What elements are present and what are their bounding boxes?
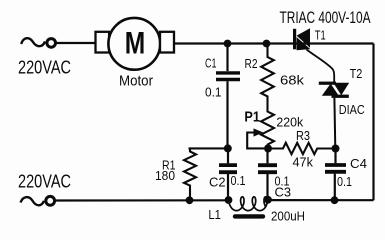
wire right rail	[372, 44, 374, 201]
svg-text:220VAC: 220VAC	[18, 57, 71, 78]
AC source bottom terminal	[46, 196, 55, 205]
wire top rail	[174, 42, 374, 44]
node C4 bottom	[331, 196, 339, 204]
svg-text:Motor: Motor	[119, 73, 153, 89]
svg-text:0.1: 0.1	[231, 174, 246, 188]
triac T1	[293, 28, 310, 50]
svg-text:0.1: 0.1	[205, 85, 222, 99]
wire R3 link + resistor R3	[268, 143, 336, 154]
motor right brush block	[160, 32, 174, 53]
resistor R2 + potentiometer P1 track	[261, 44, 274, 149]
node P1/R3/C3 junction	[264, 145, 272, 153]
svg-text:68k: 68k	[280, 74, 305, 88]
AC source bottom sine	[21, 197, 45, 205]
capacitor C2	[219, 148, 237, 200]
node C1/C2/R1 junction	[224, 144, 232, 152]
AC source top sine	[21, 38, 45, 46]
wire top-left to motor	[57, 42, 96, 44]
node R2 top junction	[263, 40, 271, 48]
svg-text:DIAC: DIAC	[339, 102, 365, 117]
svg-text:TRIAC 400V-10A: TRIAC 400V-10A	[280, 9, 371, 27]
motor M1 body	[108, 18, 160, 70]
svg-text:C2: C2	[209, 176, 226, 190]
AC source top terminal	[47, 39, 56, 48]
svg-text:R2: R2	[245, 57, 258, 71]
svg-text:C4: C4	[350, 157, 367, 171]
svg-text:R3: R3	[296, 129, 310, 143]
node C2 bottom	[225, 196, 233, 204]
wire diac to R3 junction	[333, 98, 336, 149]
capacitor C4	[325, 149, 346, 201]
svg-text:P1: P1	[244, 110, 260, 126]
svg-text:0.1: 0.1	[337, 175, 352, 189]
node C1 top junction	[224, 40, 232, 48]
wire triac gate	[307, 50, 335, 83]
svg-text:C1: C1	[205, 56, 217, 70]
svg-text:47k: 47k	[293, 155, 314, 169]
wire R1 top to C1 bottom	[189, 147, 228, 149]
capacitor C1	[216, 44, 240, 149]
svg-text:220VAC: 220VAC	[18, 171, 71, 192]
wire bottom rail	[267, 199, 374, 201]
capacitor C3	[258, 149, 277, 200]
svg-text:L1: L1	[208, 208, 221, 222]
svg-text:220k: 220k	[276, 116, 304, 130]
potentiometer P1 wiper arrow	[247, 128, 264, 148]
svg-text:T1: T1	[315, 28, 326, 42]
diac T2	[319, 82, 349, 98]
node R1 bottom	[186, 196, 194, 204]
svg-text:180: 180	[155, 169, 175, 183]
node C3 bottom	[264, 196, 272, 204]
motor left brush block	[96, 32, 110, 53]
svg-text:T2: T2	[350, 67, 363, 81]
inductor L1	[229, 197, 267, 217]
node R3/DIAC/C4 junction	[332, 145, 340, 153]
svg-text:M: M	[125, 24, 145, 60]
svg-text:C3: C3	[275, 186, 292, 200]
resistor R1	[184, 148, 196, 200]
svg-text:200uH: 200uH	[271, 210, 305, 224]
